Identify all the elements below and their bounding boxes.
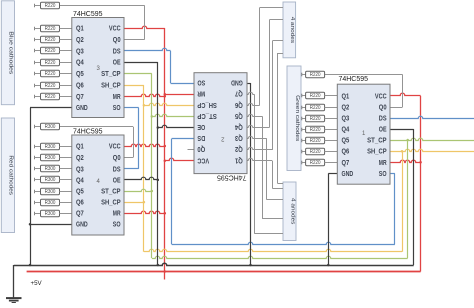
svg-text:Q1: Q1 [76,144,84,151]
wire U2 VCC [165,158,194,160]
resistor R220 (U3.Q7) [35,93,60,100]
svg-text:OE: OE [113,177,121,184]
svg-text:Red cathodes: Red cathodes [8,155,14,195]
svg-text:R220: R220 [310,138,321,144]
wire U2 Q3 to anodes [267,199,283,201]
wire U2 ST_CP [152,114,194,116]
wire U2 MR [165,94,194,96]
wire leads R300 to U4 [60,147,72,214]
resistor R300 (U4.Q0) [35,123,60,130]
wire U2 Q3 stub [247,136,267,138]
resistor R300 (U4.Q7) [35,210,60,217]
svg-text:MR: MR [113,211,121,218]
svg-text:74HC595: 74HC595 [339,74,369,83]
wire U2 Q4 stub [247,125,269,127]
svg-text:Q1: Q1 [76,26,84,33]
svg-text:R300: R300 [45,177,56,183]
svg-text:OE: OE [113,60,121,67]
svg-text:R300: R300 [45,155,56,161]
connector header: 4 anodes (top) [283,2,296,58]
svg-text:ST_CP: ST_CP [197,112,217,119]
wire anodes link vertical [277,53,279,183]
svg-text:R220: R220 [45,83,56,89]
svg-text:Q3: Q3 [76,48,84,55]
wire U3 SH_CP [124,85,144,87]
wire U1.SO-U2.DS bottom [172,242,395,244]
svg-text:Q0: Q0 [113,155,121,162]
wire into U2.SO [171,83,195,85]
svg-text:SO: SO [379,171,387,178]
IC U2 74HC595 shift register (anodes, rotated 180) [194,73,247,183]
wire +5V vertical [164,28,166,280]
resistor R220 (U3.Q2) [35,36,60,43]
wire U1 MR [390,160,421,162]
resistor R220 (U3.Q5) [35,70,60,77]
svg-text:R300: R300 [45,200,56,206]
wire OE vertical left [157,62,159,265]
wire U2 Q1 stub [247,158,272,160]
wire U2.SO-U3.DS vertical [170,51,172,83]
svg-text:OE: OE [379,127,387,134]
svg-text:4 anodes: 4 anodes [289,17,295,44]
wire U4 VCC [124,144,165,146]
wire U2 GND vertical [250,83,252,265]
svg-text:Q6: Q6 [342,149,350,156]
svg-text:Q0: Q0 [113,37,121,44]
IC U4 74HC595 shift register (red cathodes) [72,126,124,235]
wire U1.SO-U2.DS vertical left [171,139,173,245]
wire +5V right vertical [420,96,422,272]
resistor R300 (U4.Q4) [35,176,60,183]
wire GND vertical left [30,108,32,265]
wire U2 Q5 vertical [262,116,264,218]
wire leads R220 to U3 [60,29,72,97]
wire U4 MR [124,211,165,213]
wire U4.Q0 vertical [133,127,135,157]
wire U1.SO stub [390,173,395,175]
svg-text:SH_CP: SH_CP [101,200,121,207]
wire U2 Q6 stub [247,103,260,105]
svg-text:R220: R220 [310,72,321,78]
wire ST_CP vertical left [151,74,153,259]
svg-text:Q7: Q7 [76,211,84,218]
svg-text:Blue cathodes: Blue cathodes [8,31,14,74]
resistor R220 (U1.Q2) [302,104,325,111]
wire U1 OE vertical [413,129,415,265]
svg-text:R300: R300 [45,211,56,217]
svg-text:R220: R220 [45,26,56,32]
svg-text:VCC: VCC [109,144,121,151]
wire U3 GND [30,107,72,109]
svg-text:SH_CP: SH_CP [101,83,121,90]
IC U1 74HC595 shift register (green cathodes) [337,74,390,184]
svg-text:Q5: Q5 [235,112,243,119]
wire U3 VCC [124,26,165,28]
resistor R300 (U4.Q1) [35,143,60,150]
svg-text:R220: R220 [310,160,321,166]
wire U1.DS serial input [390,116,474,118]
svg-text:ST_CP: ST_CP [101,189,121,196]
wire U2 Q7 to anodes [254,233,283,235]
wire U4 SH_CP [124,202,144,204]
svg-text:GND: GND [76,222,88,229]
resistor R220 (U1.Q7) [302,159,325,166]
wire U1 GND stub [328,173,337,175]
svg-text:R220: R220 [45,3,56,9]
svg-text:Q3: Q3 [235,134,243,141]
wire U2 Q7 stub [247,92,254,94]
svg-text:R220: R220 [45,94,56,100]
svg-text:R220: R220 [310,127,321,133]
wire SH_CP vertical right [402,151,404,252]
wire U1.SO to U2.DS [172,138,194,140]
svg-text:SO: SO [113,222,121,229]
wire into U3.Q0 [124,39,145,41]
connector header: Green cathodes [287,66,301,171]
wire U3 MR [124,94,165,96]
resistor R220 (U1.Q1) [302,92,325,99]
wire U2 Q4 vertical [269,20,271,128]
svg-text:Q4: Q4 [235,123,243,130]
wire to ground symbol [13,265,15,298]
wire U2 Q1 to anodes [272,188,283,190]
svg-text:R300: R300 [45,124,56,130]
wire U2 Q5 stub [247,114,262,116]
wire U2 Q2 vertical [272,41,274,150]
resistor R300 (U4.Q2) [35,154,60,161]
wire U3 ST_CP [124,73,152,75]
svg-text:R300: R300 [45,144,56,150]
wire U2 Q3 vertical [266,139,268,200]
wire U1 SH_CP [390,149,474,151]
svg-text:R300: R300 [45,166,56,172]
wire into U4.DS [124,168,139,170]
svg-text:R220: R220 [310,116,321,122]
svg-text:R220: R220 [310,93,321,99]
svg-text:Q2: Q2 [235,145,243,152]
wire U1 OE [390,129,414,131]
resistor R220 (U1.Q3) [302,115,325,122]
svg-text:SO: SO [197,79,205,86]
svg-text:DS: DS [379,116,387,123]
svg-text:R220: R220 [45,60,56,66]
wire U2 Q7 vertical [254,94,256,233]
svg-text:74HC595: 74HC595 [73,9,103,18]
resistor R220 (U1.Q6) [302,148,325,155]
wire U2 Q4 to anodes [269,19,283,21]
wire U1 ST_CP [390,138,474,140]
svg-text:Q1: Q1 [342,93,350,100]
wire anodes link top [277,53,283,55]
wire U3.SO-U4.DS vertical [138,108,140,169]
wire U4 GND [30,224,72,226]
wire ST_CP bottom bus [152,256,408,258]
svg-text:Q2: Q2 [342,105,350,112]
resistor R220 (U1.Q5) [302,137,325,144]
svg-text:Q3: Q3 [76,166,84,173]
wire U1 VCC [390,93,421,95]
svg-text:Q4: Q4 [76,60,84,67]
svg-text:GND: GND [76,105,88,112]
svg-text:Q7: Q7 [76,94,84,101]
connector header: Red cathodes [1,118,14,233]
svg-text:R220: R220 [310,105,321,111]
svg-text:MR: MR [113,94,121,101]
wire ST_CP vertical right [407,140,409,258]
svg-text:DS: DS [113,166,121,173]
wire U3.SO to U4.DS [124,107,139,109]
svg-text:Q7: Q7 [235,90,243,97]
resistor R300 (U4.Q5) [35,188,60,195]
wire U2 GND stub [247,83,251,85]
svg-text:Q6: Q6 [76,83,84,90]
svg-text:SO: SO [113,105,121,112]
svg-text:Q6: Q6 [235,101,243,108]
svg-text:Green cathodes: Green cathodes [294,95,300,142]
svg-text:Q5: Q5 [76,189,84,196]
resistor R220 (U1.Q0) [302,71,325,78]
wire U3 OE [124,62,158,64]
resistor R220 (U3.Q3) [35,47,60,54]
svg-text:R220: R220 [310,149,321,155]
wire +5V rail [27,271,421,273]
svg-text:VCC: VCC [197,156,209,163]
svg-text:Q7: Q7 [342,160,350,167]
wire U1.SO vertical [394,174,396,245]
svg-text:Q1: Q1 [235,156,243,163]
wire R-top to U1.Q0 over [325,74,403,76]
svg-text:GND: GND [231,79,243,86]
svg-text:OE: OE [197,123,205,130]
wire into U1.Q0 [390,107,403,109]
svg-text:Q5: Q5 [342,138,350,145]
svg-text:VCC: VCC [109,26,121,33]
svg-text:Q6: Q6 [76,200,84,207]
wire anodes link bottom [277,183,283,185]
wire SH_CP bottom bus [144,249,402,251]
svg-text:R220: R220 [45,37,56,43]
svg-text:DS: DS [113,48,121,55]
svg-text:Q0: Q0 [197,145,205,152]
wire SH_CP vertical left [143,85,145,252]
svg-text:Q2: Q2 [76,37,84,44]
resistor R300 (U4.Q3) [35,165,60,172]
svg-text:MR: MR [379,160,387,167]
wire U1.Q0 vertical [402,75,404,108]
svg-text:SH_CP: SH_CP [367,149,387,156]
svg-text:Q3: Q3 [342,116,350,123]
resistor R220 (U3.Q1) [35,25,60,32]
wire U4 OE [124,177,158,179]
wire U2 Q0 stub [188,149,195,151]
connector header: 4 anodes (bottom) [283,182,296,241]
svg-text:Q4: Q4 [76,177,84,184]
svg-text:74HC595: 74HC595 [73,126,103,135]
resistor R300 (U4.Q6) [35,199,60,206]
resistor R220 (U3.Q4) [35,59,60,66]
svg-text:74HC595: 74HC595 [217,174,247,183]
wire U2 Q6 to anodes [260,7,283,9]
svg-text:4 anodes: 4 anodes [289,198,295,225]
svg-text:MR: MR [197,90,205,97]
wire U2 Q2 to anodes [273,40,283,42]
wire leads R220 to U1 [325,96,338,163]
svg-text:Q5: Q5 [76,71,84,78]
wire GND rail [14,263,414,265]
wire junctions [29,93,422,273]
resistor R220 (U3.Q0) [35,2,60,9]
wire U2 Q1 vertical [272,161,274,188]
wire U1 GND vertical [328,174,330,266]
svg-text:Q4: Q4 [342,127,350,134]
wire U4 ST_CP [124,189,152,191]
ground [6,298,22,303]
wire R-top to U3.Q0 over [60,5,145,7]
wire U2 OE [158,125,194,127]
connector header: Blue cathodes [1,1,14,105]
wire U2 Q2 stub [247,147,273,149]
IC U3 74HC595 shift register (blue cathodes) [72,9,124,118]
svg-text:ST_CP: ST_CP [101,71,121,78]
svg-text:Q2: Q2 [76,155,84,162]
resistor R220 (U3.Q6) [35,82,60,89]
svg-text:VCC: VCC [375,93,387,100]
svg-text:DS: DS [197,134,205,141]
wire U2 SH_CP [144,103,194,105]
wire U2 Q5 to anodes [262,218,283,220]
wire U2 Q6 vertical [259,8,261,106]
svg-text:R220: R220 [45,48,56,54]
svg-text:ST_CP: ST_CP [367,138,387,145]
svg-text:GND: GND [342,171,354,178]
svg-text:SH_CP: SH_CP [197,101,217,108]
svg-text:R300: R300 [45,189,56,195]
svg-text:R220: R220 [45,71,56,77]
svg-text:+5V: +5V [31,280,43,287]
wire into U4.Q0 [124,157,133,159]
wire U2.SO to U3.DS [124,48,171,50]
svg-text:Q0: Q0 [379,105,387,112]
resistor R220 (U1.Q4) [302,126,325,133]
wire R-top to U4.Q0 over [60,126,134,128]
wire U3.Q0 vertical [144,6,146,40]
